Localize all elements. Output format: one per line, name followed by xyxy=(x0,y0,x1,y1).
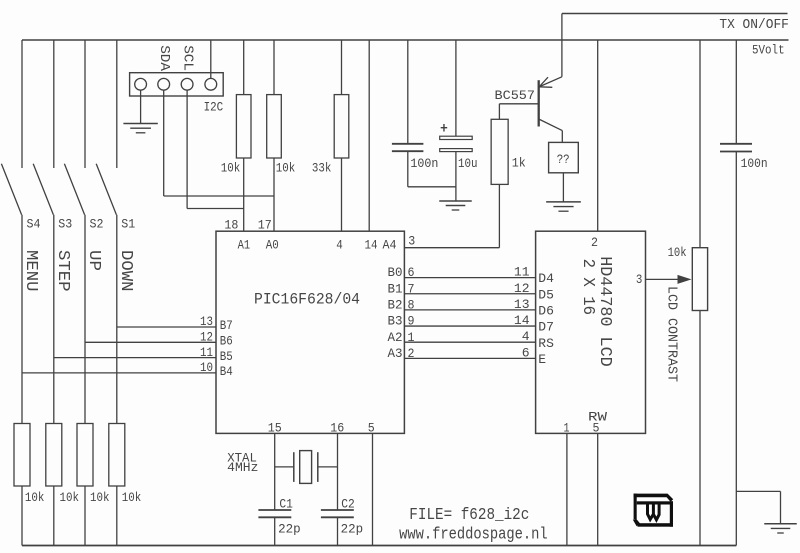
svg-text:B3: B3 xyxy=(388,314,403,329)
svg-text:B5: B5 xyxy=(220,349,233,364)
svg-text:B7: B7 xyxy=(220,318,233,333)
svg-text:LCD CONTRAST: LCD CONTRAST xyxy=(664,286,679,382)
svg-text:16: 16 xyxy=(330,421,344,436)
svg-text:11: 11 xyxy=(200,345,213,360)
svg-text:B0: B0 xyxy=(388,265,403,280)
svg-text:2: 2 xyxy=(408,346,415,361)
svg-text:10u: 10u xyxy=(458,156,478,171)
svg-text:10k: 10k xyxy=(221,161,241,176)
svg-text:1: 1 xyxy=(408,330,415,345)
svg-text:B6: B6 xyxy=(220,334,233,349)
svg-text:3: 3 xyxy=(636,272,643,287)
svg-text:5: 5 xyxy=(368,421,375,436)
svg-text:4: 4 xyxy=(336,238,343,253)
svg-text:DOWN: DOWN xyxy=(116,250,135,292)
svg-text:FILE= f628_i2c: FILE= f628_i2c xyxy=(409,506,529,525)
svg-text:I2C: I2C xyxy=(204,100,224,115)
svg-text:10k: 10k xyxy=(122,490,142,505)
svg-text:MENU: MENU xyxy=(21,250,40,292)
svg-text:4MHz: 4MHz xyxy=(227,461,258,475)
svg-text:1: 1 xyxy=(564,421,570,436)
svg-text:9: 9 xyxy=(408,314,415,329)
svg-text:33k: 33k xyxy=(312,161,332,176)
svg-text:RS: RS xyxy=(538,336,554,351)
svg-text:4: 4 xyxy=(522,329,530,344)
svg-text:??: ?? xyxy=(557,152,570,167)
svg-text:15: 15 xyxy=(268,421,282,436)
svg-text:17: 17 xyxy=(258,218,272,233)
svg-text:PIC16F628/04: PIC16F628/04 xyxy=(254,290,360,308)
svg-text:10k: 10k xyxy=(90,490,110,505)
svg-text:S1: S1 xyxy=(121,217,135,232)
svg-text:100n: 100n xyxy=(741,156,768,171)
svg-text:12: 12 xyxy=(514,281,530,296)
svg-text:C1: C1 xyxy=(279,497,293,512)
svg-text:5Volt: 5Volt xyxy=(752,43,785,58)
svg-text:3: 3 xyxy=(408,234,415,249)
svg-text:B2: B2 xyxy=(388,298,403,313)
svg-text:11: 11 xyxy=(514,265,530,280)
svg-text:C2: C2 xyxy=(341,497,355,512)
svg-text:D6: D6 xyxy=(538,304,554,319)
svg-text:10: 10 xyxy=(200,360,213,375)
svg-text:SCL: SCL xyxy=(179,45,195,71)
svg-text:10k: 10k xyxy=(668,245,687,260)
svg-text:18: 18 xyxy=(224,218,238,233)
svg-text:SDA: SDA xyxy=(156,45,172,71)
svg-text:22p: 22p xyxy=(341,522,364,537)
svg-text:12: 12 xyxy=(200,330,213,345)
svg-text:TX ON/OFF: TX ON/OFF xyxy=(719,17,789,33)
svg-text:13: 13 xyxy=(200,314,213,329)
svg-text:UP: UP xyxy=(84,250,103,271)
svg-text:7: 7 xyxy=(408,281,415,296)
svg-text:A3: A3 xyxy=(388,346,403,361)
svg-text:B4: B4 xyxy=(220,364,233,379)
svg-text:www.freddospage.nl: www.freddospage.nl xyxy=(399,526,547,545)
svg-text:14: 14 xyxy=(365,238,378,253)
svg-text:6: 6 xyxy=(408,265,415,280)
svg-text:S4: S4 xyxy=(27,217,41,232)
svg-text:14: 14 xyxy=(514,313,530,328)
svg-text:13: 13 xyxy=(514,297,530,312)
svg-text:D4: D4 xyxy=(538,271,554,286)
svg-text:D7: D7 xyxy=(538,320,554,335)
svg-text:2 X 16: 2 X 16 xyxy=(579,259,598,316)
svg-text:100n: 100n xyxy=(410,156,438,171)
svg-text:A4: A4 xyxy=(383,238,397,253)
svg-text:5: 5 xyxy=(593,421,600,436)
svg-text:STEP: STEP xyxy=(53,250,72,292)
svg-text:A0: A0 xyxy=(266,238,279,253)
svg-text:BC557: BC557 xyxy=(495,88,536,103)
svg-text:10k: 10k xyxy=(25,490,45,505)
svg-text:D5: D5 xyxy=(538,287,554,302)
svg-text:A2: A2 xyxy=(388,330,403,345)
svg-text:E: E xyxy=(538,352,546,367)
svg-text:8: 8 xyxy=(408,298,415,313)
svg-text:10k: 10k xyxy=(60,490,80,505)
svg-text:6: 6 xyxy=(522,345,530,360)
svg-text:B1: B1 xyxy=(388,281,403,296)
svg-text:S3: S3 xyxy=(58,217,72,232)
svg-text:A1: A1 xyxy=(238,238,251,253)
svg-text:1k: 1k xyxy=(512,156,526,171)
svg-text:10k: 10k xyxy=(276,161,296,176)
svg-text:2: 2 xyxy=(591,235,598,250)
svg-text:22p: 22p xyxy=(278,522,301,537)
svg-text:S2: S2 xyxy=(90,217,104,232)
